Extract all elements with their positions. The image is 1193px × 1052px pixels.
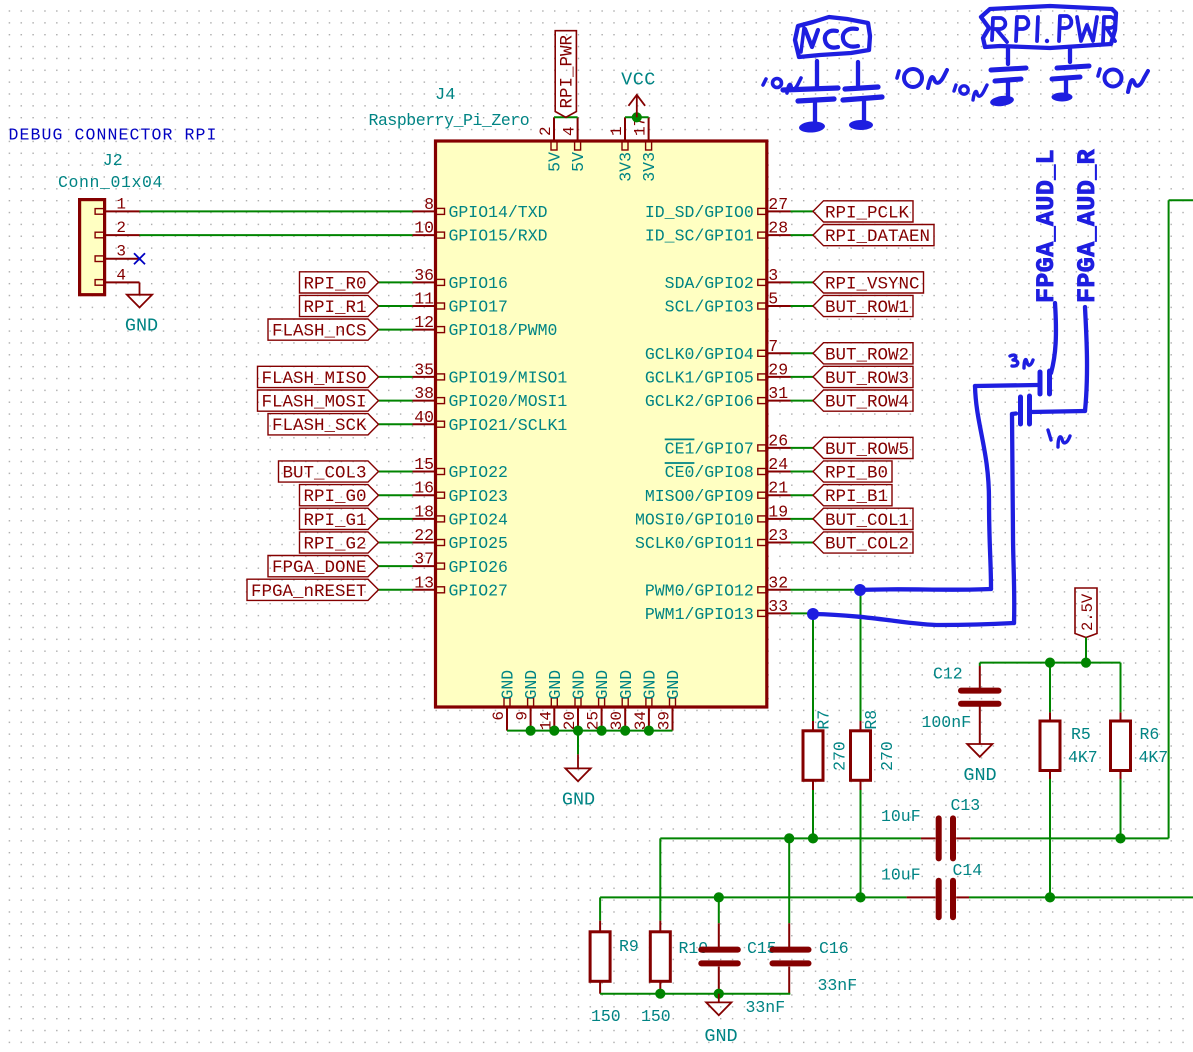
svg-text:35: 35 <box>414 360 434 379</box>
connector J2 pin 1 <box>95 195 139 214</box>
pin 7 GCLK0/GPIO4 <box>645 337 791 364</box>
pin 17 3V3 (top) <box>632 117 660 182</box>
svg-text:SCL/GPIO3: SCL/GPIO3 <box>665 298 754 317</box>
svg-text:4: 4 <box>561 126 579 136</box>
svg-text:GND: GND <box>963 765 996 786</box>
pin 36 GPIO16 <box>413 266 508 293</box>
svg-text:Conn_01x04: Conn_01x04 <box>58 173 163 192</box>
svg-text:Raspberry_Pi_Zero: Raspberry_Pi_Zero <box>369 111 530 130</box>
global label RPI_B1 <box>791 485 893 508</box>
pin 26 CE1/GPIO7 <box>665 431 791 458</box>
svg-text:270: 270 <box>831 741 850 771</box>
capacitor C16 <box>773 939 858 995</box>
global label RPI_G2 <box>300 532 413 555</box>
svg-text:R8: R8 <box>862 710 881 730</box>
svg-text:GPIO15/RXD: GPIO15/RXD <box>449 227 548 246</box>
junction C16 top <box>784 833 794 843</box>
ink label 3u <box>1010 355 1033 368</box>
ground symbol C12 GND <box>963 744 996 786</box>
svg-text:BUT_ROW3: BUT_ROW3 <box>825 369 909 389</box>
pin 8 GPIO14/TXD <box>413 195 548 222</box>
IC J4 reference <box>435 86 455 105</box>
note DEBUG CONNECTOR RPI <box>9 126 218 145</box>
global label BUT_ROW2 <box>791 343 914 366</box>
global label FPGA_DONE <box>268 556 413 579</box>
svg-text:CE1/GPIO7: CE1/GPIO7 <box>665 440 754 459</box>
resistor R9 <box>590 932 639 1026</box>
wire right vertical <box>1169 200 1193 838</box>
ink wire FPGA_AUD_R route <box>813 307 1087 625</box>
svg-text:3V3: 3V3 <box>617 152 636 182</box>
svg-text:GND: GND <box>562 790 595 811</box>
svg-text:13: 13 <box>414 573 434 592</box>
junction 2.5V stem <box>1081 658 1091 668</box>
svg-text:C14: C14 <box>953 861 983 880</box>
wire R10 bottom <box>659 981 661 993</box>
svg-text:2: 2 <box>537 126 555 136</box>
svg-text:RPI_R0: RPI_R0 <box>303 274 366 294</box>
svg-text:21: 21 <box>768 479 788 498</box>
global label RPI_R0 <box>300 272 413 295</box>
pin 15 GPIO22 <box>413 455 508 482</box>
pin 24 CE0/GPIO8 <box>665 455 791 482</box>
pin 39 GND (bottom) <box>656 670 684 731</box>
wire C12 top <box>979 663 981 666</box>
ground symbol J2 GND <box>125 282 158 336</box>
global label BUT_COL2 <box>791 532 914 555</box>
svg-text:FLASH_MOSI: FLASH_MOSI <box>261 393 366 413</box>
svg-text:R5: R5 <box>1071 725 1091 744</box>
pin 28 ID_SC/GPIO1 <box>645 219 791 246</box>
ground symbol chip GND <box>562 754 595 810</box>
pin 10 GPIO15/RXD <box>413 219 548 246</box>
ink capacitor PWR-1 <box>989 49 1026 108</box>
svg-text:GND: GND <box>617 670 636 700</box>
pin 25 GND (bottom) <box>585 670 613 731</box>
global label FLASH_MOSI <box>258 390 413 413</box>
svg-text:R9: R9 <box>619 937 639 956</box>
ink capacitor PWR-2 <box>1052 49 1090 102</box>
svg-text:GPIO25: GPIO25 <box>449 534 508 553</box>
svg-text:GPIO19/MISO1: GPIO19/MISO1 <box>449 369 568 388</box>
svg-text:15: 15 <box>414 455 434 474</box>
global label FLASH_SCK <box>268 414 413 437</box>
svg-text:BUT_ROW4: BUT_ROW4 <box>825 393 909 413</box>
wire C15 top <box>718 897 720 947</box>
ink power box RPI.PWR <box>981 6 1116 48</box>
global label RPI_VSYNC <box>791 272 924 295</box>
svg-text:6: 6 <box>490 711 508 721</box>
svg-text:DEBUG CONNECTOR RPI: DEBUG CONNECTOR RPI <box>9 126 218 145</box>
svg-text:22: 22 <box>414 526 434 545</box>
IC J4 value Raspberry_Pi_Zero <box>369 111 530 130</box>
svg-text:R7: R7 <box>815 710 834 730</box>
wire R9 bottom <box>599 981 601 993</box>
svg-text:BUT_COL1: BUT_COL1 <box>825 511 909 531</box>
svg-text:BUT_ROW5: BUT_ROW5 <box>825 440 909 460</box>
ink power box VCC <box>795 17 870 57</box>
global label FPGA_nRESET <box>247 579 413 602</box>
ink junction pin32 <box>854 584 866 596</box>
svg-text:3: 3 <box>116 243 126 261</box>
wire net GPIO14 J2.1 to J4.8 <box>140 210 413 212</box>
pin 23 SCLK0/GPIO11 <box>635 526 791 553</box>
ink junction pin33 <box>807 608 819 620</box>
svg-text:10uF: 10uF <box>881 807 921 826</box>
capacitor C12 <box>922 665 999 744</box>
junction GND pin 30 <box>620 726 630 736</box>
pin 14 GND (bottom) <box>537 670 565 731</box>
svg-text:18: 18 <box>414 502 434 521</box>
svg-text:5: 5 <box>768 290 778 309</box>
ground symbol C15 GND <box>704 994 737 1047</box>
svg-text:11: 11 <box>414 290 434 309</box>
no-connect X J2.3 <box>134 253 145 264</box>
wire PWM1/GPIO13 to R7 <box>791 613 814 721</box>
global label BUT_ROW4 <box>791 390 914 413</box>
svg-text:GND: GND <box>546 670 565 700</box>
svg-text:GPIO18/PWM0: GPIO18/PWM0 <box>449 321 558 340</box>
svg-text:8: 8 <box>424 195 434 214</box>
junction C15 top <box>714 892 724 902</box>
svg-text:FPGA_AUD_L: FPGA_AUD_L <box>1032 149 1061 303</box>
junction R10 bottom <box>655 989 665 999</box>
svg-text:GND: GND <box>641 670 660 700</box>
svg-text:RPI_G0: RPI_G0 <box>303 487 366 507</box>
junction GND pin 34 <box>644 726 654 736</box>
svg-text:19: 19 <box>768 502 788 521</box>
svg-text:BUT_COL3: BUT_COL3 <box>282 464 366 484</box>
svg-text:24: 24 <box>768 455 788 474</box>
junction R8 bottom <box>855 892 865 902</box>
svg-text:3: 3 <box>768 266 778 285</box>
svg-text:GND: GND <box>593 670 612 700</box>
svg-text:5V: 5V <box>569 152 588 172</box>
pin 32 PWM0/GPIO12 <box>645 573 791 600</box>
resistor R10 <box>641 932 708 1026</box>
pin 33 PWM1/GPIO13 <box>645 597 791 624</box>
connector J2 reference <box>103 151 123 170</box>
svg-text:MOSI0/GPIO10: MOSI0/GPIO10 <box>635 511 754 530</box>
wire C13 rail left <box>660 837 921 839</box>
connector J2 pin 3 <box>95 243 139 262</box>
wire C13 rail right <box>970 837 1168 839</box>
svg-text:100nF: 100nF <box>922 713 972 732</box>
pin 40 GPIO21/SCLK1 <box>413 408 568 435</box>
pin 35 GPIO19/MISO1 <box>413 360 568 387</box>
svg-text:10uF: 10uF <box>881 866 921 885</box>
connector J2 body <box>80 200 105 295</box>
svg-text:270: 270 <box>878 741 897 771</box>
svg-text:FPGA_nRESET: FPGA_nRESET <box>251 582 367 602</box>
connector J2 value Conn_01x04 <box>58 173 163 192</box>
wire 5V pins <box>554 116 578 118</box>
svg-text:C12: C12 <box>933 665 963 684</box>
junction VCC <box>632 112 642 122</box>
pin 29 GCLK1/GPIO5 <box>645 360 791 387</box>
svg-text:GPIO17: GPIO17 <box>449 298 508 317</box>
wire R6 top <box>1120 663 1122 721</box>
svg-text:GPIO23: GPIO23 <box>449 487 508 506</box>
svg-text:VCC: VCC <box>621 70 656 91</box>
junction R7 bottom <box>808 833 818 843</box>
pin 5 SCL/GPIO3 <box>665 290 791 317</box>
wire bottom GND rail <box>600 993 790 995</box>
svg-text:PWM0/GPIO12: PWM0/GPIO12 <box>645 581 754 600</box>
svg-text:27: 27 <box>768 195 788 214</box>
global label RPI_G0 <box>300 485 413 508</box>
svg-text:BUT_COL2: BUT_COL2 <box>825 535 909 555</box>
wire GND stem <box>577 731 579 755</box>
svg-text:FPGA_AUD_R: FPGA_AUD_R <box>1073 149 1102 303</box>
ink label 10u (PWR-2) <box>1098 69 1148 92</box>
svg-text:RPI_DATAEN: RPI_DATAEN <box>825 227 930 247</box>
power symbol 2.5V <box>1075 588 1097 663</box>
junction GND pin 14 <box>549 726 559 736</box>
svg-text:ID_SD/GPIO0: ID_SD/GPIO0 <box>645 203 754 222</box>
svg-text:GND: GND <box>522 670 541 700</box>
svg-text:GCLK2/GPIO6: GCLK2/GPIO6 <box>645 392 754 411</box>
svg-text:FLASH_nCS: FLASH_nCS <box>272 322 367 342</box>
wire C14 rail right <box>969 896 1193 898</box>
connector J2 pin 4 <box>95 266 139 285</box>
wire R8 to C14 rail <box>860 780 862 897</box>
junction GND pin 25 <box>597 726 607 736</box>
svg-text:3V3: 3V3 <box>640 152 659 182</box>
wire 3V3 pins <box>625 116 649 118</box>
pin 38 GPIO20/MOSI1 <box>413 384 568 411</box>
svg-text:26: 26 <box>768 431 788 450</box>
junction GND pin 20 <box>573 726 583 736</box>
svg-text:33: 33 <box>768 597 788 616</box>
svg-text:33nF: 33nF <box>746 998 786 1017</box>
wire R5 top <box>1049 663 1051 721</box>
global label BUT_ROW1 <box>791 295 914 318</box>
global label FLASH_MISO <box>258 366 413 389</box>
svg-text:GPIO22: GPIO22 <box>449 463 508 482</box>
svg-text:FLASH_SCK: FLASH_SCK <box>272 416 367 436</box>
svg-text:GPIO26: GPIO26 <box>449 558 508 577</box>
global label RPI_PWR <box>555 31 577 118</box>
pin 20 GND (bottom) <box>561 670 589 731</box>
svg-text:28: 28 <box>768 219 788 238</box>
wire GND bus <box>507 730 673 732</box>
pin 34 GND (bottom) <box>632 670 660 731</box>
resistor R7 <box>803 710 850 781</box>
svg-text:5V: 5V <box>546 152 565 172</box>
svg-text:33nF: 33nF <box>818 976 858 995</box>
svg-text:RPI_B1: RPI_B1 <box>825 487 888 507</box>
global label BUT_COL3 <box>279 461 413 484</box>
ink label 10u (VCC-1) <box>763 78 801 93</box>
svg-text:J2: J2 <box>103 151 123 170</box>
global label RPI_DATAEN <box>791 225 935 248</box>
svg-text:40: 40 <box>414 408 434 427</box>
pin 18 GPIO24 <box>413 502 509 529</box>
svg-text:FLASH_MISO: FLASH_MISO <box>261 369 366 389</box>
power symbol VCC <box>621 70 656 118</box>
svg-text:36: 36 <box>414 266 434 285</box>
global label RPI_G1 <box>300 508 413 531</box>
svg-text:BUT_ROW1: BUT_ROW1 <box>825 298 909 318</box>
svg-text:GPIO14/TXD: GPIO14/TXD <box>449 203 548 222</box>
wire C14 rail left <box>600 896 907 898</box>
svg-text:GND: GND <box>499 670 518 700</box>
svg-text:9: 9 <box>514 711 532 721</box>
global label BUT_ROW3 <box>791 366 914 389</box>
ink label 10u (PWR-1) <box>954 85 987 100</box>
ink label FPGA_AUD_R <box>1073 149 1102 303</box>
pin 1 3V3 (top) <box>608 117 636 181</box>
ink capacitor VCC-2 <box>843 62 882 130</box>
svg-text:RPI_VSYNC: RPI_VSYNC <box>825 274 920 294</box>
svg-text:7: 7 <box>768 337 778 356</box>
global label BUT_ROW5 <box>791 437 914 460</box>
pin 12 GPIO18/PWM0 <box>413 313 558 340</box>
svg-text:10: 10 <box>414 219 434 238</box>
svg-text:4: 4 <box>116 266 126 284</box>
svg-text:GND: GND <box>570 670 589 700</box>
svg-text:2.5V: 2.5V <box>1079 593 1097 631</box>
svg-text:GPIO21/SCLK1: GPIO21/SCLK1 <box>449 416 568 435</box>
pin 31 GCLK2/GPIO6 <box>645 384 791 411</box>
pin 21 MISO0/GPIO9 <box>645 479 791 506</box>
pin 6 GND (bottom) <box>490 670 518 731</box>
resistor R8 <box>851 710 898 781</box>
pin 9 GND (bottom) <box>514 670 542 731</box>
svg-text:37: 37 <box>414 550 434 569</box>
svg-text:GPIO20/MOSI1: GPIO20/MOSI1 <box>449 392 568 411</box>
svg-text:1: 1 <box>608 126 626 136</box>
svg-text:32: 32 <box>768 573 788 592</box>
svg-text:29: 29 <box>768 360 788 379</box>
global label FLASH_nCS <box>268 319 413 342</box>
svg-text:39: 39 <box>656 711 674 730</box>
svg-text:16: 16 <box>414 479 434 498</box>
svg-text:GPIO16: GPIO16 <box>449 274 508 293</box>
svg-text:GND: GND <box>704 1026 737 1047</box>
svg-text:MISO0/GPIO9: MISO0/GPIO9 <box>645 487 754 506</box>
ink label 10u (VCC-2) <box>897 69 947 88</box>
svg-text:RPI_PWR: RPI_PWR <box>557 34 577 108</box>
junction R5 top <box>1045 658 1055 668</box>
junction R6 bottom <box>1115 833 1125 843</box>
ink label FPGA_AUD_L <box>1032 149 1061 303</box>
wire R6 bottom <box>1120 771 1122 839</box>
pin 30 GND (bottom) <box>608 670 636 731</box>
svg-text:GND: GND <box>664 670 683 700</box>
svg-text:1: 1 <box>116 195 126 213</box>
svg-text:PWM1/GPIO13: PWM1/GPIO13 <box>645 605 754 624</box>
global label RPI_PCLK <box>791 201 914 224</box>
svg-text:GCLK0/GPIO4: GCLK0/GPIO4 <box>645 345 754 364</box>
junction R5 bottom <box>1045 892 1055 902</box>
svg-text:SDA/GPIO2: SDA/GPIO2 <box>665 274 754 293</box>
svg-text:4K7: 4K7 <box>1068 748 1098 767</box>
pin 2 5V (top) <box>537 117 565 172</box>
pin 37 GPIO26 <box>413 550 508 577</box>
svg-text:BUT_ROW2: BUT_ROW2 <box>825 345 909 365</box>
wire PWM0/GPIO12 to R8 <box>791 590 861 721</box>
capacitor C15 <box>701 939 785 1017</box>
global label RPI_R1 <box>300 295 413 318</box>
svg-text:GPIO24: GPIO24 <box>449 511 509 530</box>
resistor R5 <box>1040 721 1098 771</box>
svg-text:150: 150 <box>591 1007 621 1026</box>
global label RPI_B0 <box>791 461 893 484</box>
svg-text:J4: J4 <box>435 86 455 105</box>
svg-text:38: 38 <box>414 384 434 403</box>
svg-text:RPI_B0: RPI_B0 <box>825 464 888 484</box>
connector J2 pin 2 <box>95 219 139 238</box>
svg-text:ID_SC/GPIO1: ID_SC/GPIO1 <box>645 227 754 246</box>
global label BUT_COL1 <box>791 508 914 531</box>
wire R10 top <box>659 838 661 932</box>
pin 3 SDA/GPIO2 <box>665 266 791 293</box>
svg-text:C16: C16 <box>819 939 849 958</box>
junction GND pin 9 <box>526 726 536 736</box>
svg-text:31: 31 <box>768 384 788 403</box>
capacitor C13 <box>881 796 980 858</box>
svg-text:2: 2 <box>116 219 126 237</box>
svg-text:150: 150 <box>641 1007 671 1026</box>
wire net GPIO15 J2.2 to J4.10 <box>140 234 413 236</box>
svg-text:4K7: 4K7 <box>1139 748 1169 767</box>
svg-text:RPI_G1: RPI_G1 <box>303 511 366 531</box>
svg-text:RPI_PCLK: RPI_PCLK <box>825 203 910 223</box>
svg-text:FPGA_DONE: FPGA_DONE <box>272 558 367 578</box>
svg-text:CE0/GPIO8: CE0/GPIO8 <box>665 463 754 482</box>
svg-text:12: 12 <box>414 313 434 332</box>
capacitor C14 <box>881 861 982 917</box>
ink capacitor VCC-1 <box>783 61 838 133</box>
pin 19 MOSI0/GPIO10 <box>635 502 791 529</box>
svg-text:RPI_G2: RPI_G2 <box>303 535 366 555</box>
svg-text:GPIO27: GPIO27 <box>449 581 508 600</box>
svg-text:23: 23 <box>768 526 788 545</box>
pin 11 GPIO17 <box>413 290 508 317</box>
wire C16 top <box>788 838 790 947</box>
svg-text:GCLK1/GPIO5: GCLK1/GPIO5 <box>645 369 754 388</box>
pin 4 5V (top) <box>561 117 589 172</box>
ink wire FPGA_AUD_L route <box>860 303 1056 590</box>
pin 16 GPIO23 <box>413 479 508 506</box>
svg-text:C13: C13 <box>951 796 981 815</box>
pin 13 GPIO27 <box>413 573 508 600</box>
wire R7 to C13 rail <box>812 780 814 838</box>
pin 22 GPIO25 <box>413 526 508 553</box>
resistor R6 <box>1111 721 1169 771</box>
pin 27 ID_SD/GPIO0 <box>645 195 791 222</box>
IC J4 Raspberry_Pi_Zero body <box>436 141 767 707</box>
svg-text:R6: R6 <box>1140 725 1160 744</box>
svg-text:GND: GND <box>125 316 158 337</box>
wire R9 top <box>599 897 601 932</box>
svg-text:SCLK0/GPIO11: SCLK0/GPIO11 <box>635 534 754 553</box>
ink label 1u <box>1048 430 1070 447</box>
svg-text:RPI_R1: RPI_R1 <box>303 298 366 318</box>
junction C15 bottom <box>714 989 724 999</box>
wire 2V5 rail <box>980 662 1121 664</box>
wire R5 bottom <box>1049 771 1051 898</box>
